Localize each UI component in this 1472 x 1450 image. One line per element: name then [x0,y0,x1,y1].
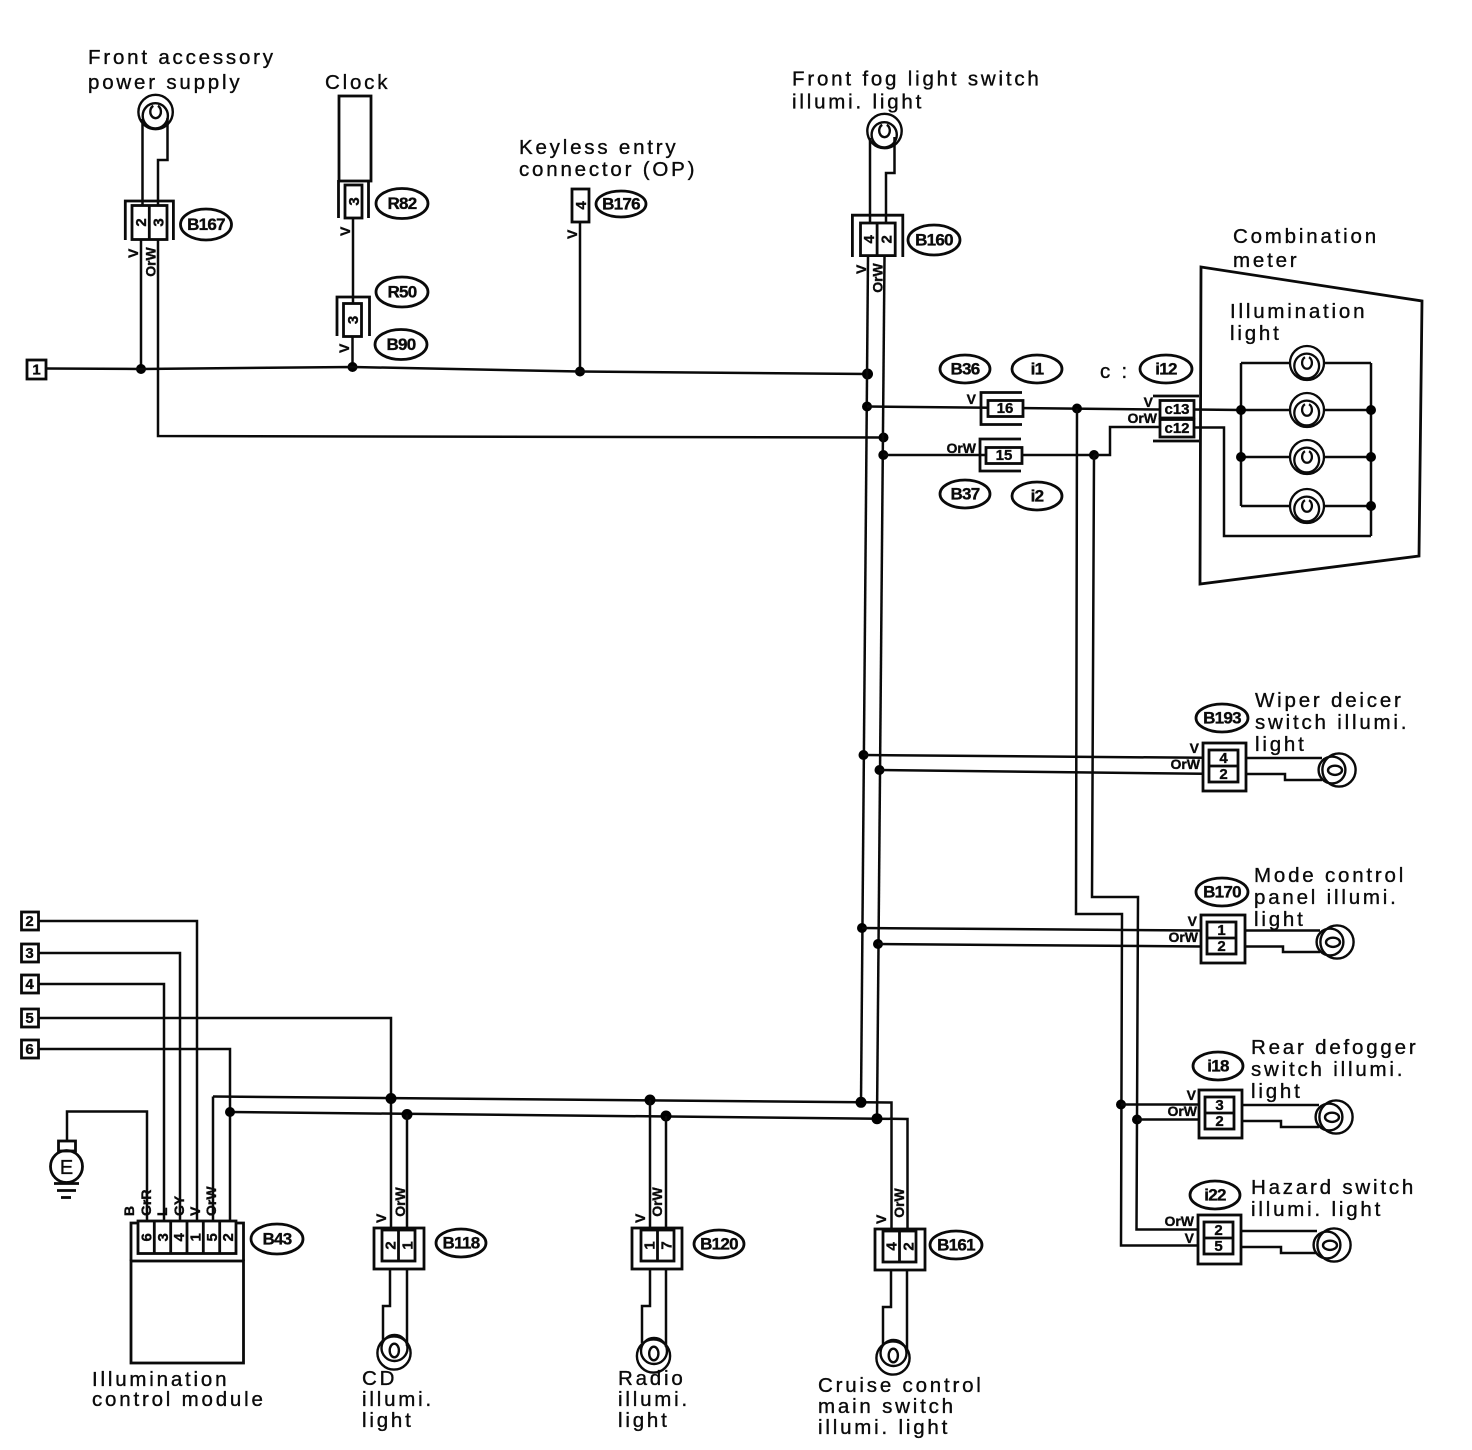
junction dot OrW trunk mode branch [873,939,883,949]
junction dot V trunk wiper branch [859,750,869,760]
oval B118 [436,1229,486,1257]
svg-text:Radio: Radio [618,1367,686,1390]
svg-text:GY: GY [171,1195,187,1216]
junction dot OrW trunk at B37 wire [878,450,888,460]
junction dot OrW bus at B43 pin 2 [225,1107,235,1117]
clock body [339,96,371,181]
oval B170 [1196,878,1248,906]
svg-text:B43: B43 [262,1230,291,1249]
svg-text:B36: B36 [950,360,979,379]
terminal 2 box [22,912,39,930]
svg-text:1: 1 [32,362,40,379]
svg-text:B118: B118 [443,1234,480,1253]
svg-text:illumi.: illumi. [362,1388,434,1411]
oval B161 [930,1231,982,1259]
wire i18 pin 3 to lamp [1242,1104,1319,1107]
junction dot V bus at B118 branch [386,1093,397,1104]
connector B170 pins [1207,922,1236,955]
svg-text:i1: i1 [1031,360,1044,379]
wire c13 into meter [1194,408,1241,411]
svg-text:3: 3 [346,197,363,205]
connector i22 pins [1204,1222,1233,1255]
svg-text:16: 16 [997,400,1014,417]
wire B118 pin 2 to lamp [383,1269,390,1342]
svg-text:7: 7 [658,1241,675,1249]
wire R82 to R50 [352,218,355,304]
oval B160 [908,225,960,255]
svg-text:B160: B160 [915,231,953,250]
svg-text:switch illumi.: switch illumi. [1251,1058,1405,1081]
svg-text:4: 4 [25,976,34,993]
svg-text:B193: B193 [1203,709,1241,728]
svg-text:1: 1 [399,1241,416,1249]
svg-text:V: V [125,248,141,258]
svg-text:light: light [1230,322,1282,345]
oval B43 [251,1224,303,1254]
svg-text:B170: B170 [1203,883,1241,902]
svg-text:1: 1 [1217,922,1225,939]
svg-text:V: V [1144,394,1154,410]
svg-text:i12: i12 [1155,360,1177,379]
svg-text:4: 4 [1219,750,1228,767]
wire i22 pin 2 to lamp [1241,1230,1317,1233]
svg-text:B176: B176 [602,195,640,214]
svg-text:OrW: OrW [649,1186,665,1216]
connector B90 pin 3 [344,304,362,337]
wire B167 pin 3 OrW down and right to vertical OrW trunk [158,240,884,438]
junction dot V bus at B120 branch [645,1095,656,1106]
svg-text:OrW: OrW [1167,1103,1197,1119]
svg-text:V: V [564,229,580,239]
connector B167 pins [132,206,167,240]
connector B160 outer [852,215,902,257]
terminal 1 box [27,360,46,379]
svg-text:B120: B120 [700,1235,738,1254]
label Front accessory power supply [88,46,276,94]
meter lamp 2 [1241,393,1371,427]
oval B37 [940,480,990,508]
oval i2 [1012,482,1062,510]
terminal c12 [1160,420,1194,438]
svg-text:OrW: OrW [142,246,158,276]
svg-text:R50: R50 [387,283,416,302]
svg-text:1: 1 [187,1233,204,1241]
wire V bus from terminal 1 to fog trunk [46,367,868,374]
wire terminal 3 to B43 pin 4 [38,953,181,1222]
oval B176 [596,191,646,217]
connector B118 pins [382,1230,416,1261]
svg-text:4: 4 [883,1242,900,1251]
wire i22 pin 5 to lamp [1241,1247,1317,1253]
junction dot [136,364,146,374]
svg-text:connector (OP): connector (OP) [519,158,697,181]
svg-text:c12: c12 [1164,420,1189,437]
junction dot OrW trunk wiper branch [875,765,885,775]
ground E circle [51,1151,83,1183]
wire V bus bottom [213,1097,892,1232]
connector R82 bracket [339,180,369,218]
label Mode control panel illumi. light [1254,864,1406,931]
junction dot OrW drop defogger branch [1132,1115,1142,1125]
svg-text:V: V [967,391,977,407]
svg-text:Front fog light switch: Front fog light switch [792,68,1042,91]
svg-text:Front accessory: Front accessory [88,46,276,69]
svg-text:OrW: OrW [1127,410,1157,426]
svg-text:light: light [618,1409,670,1432]
connector B118 outer [374,1228,424,1269]
connector B161 pins [883,1231,917,1262]
connector i22 outer [1198,1215,1241,1264]
wire V trunk from B160 pin 4 down to bottom V bus [861,257,868,1102]
oval B167 [181,209,232,240]
svg-text:Cruise control: Cruise control [818,1374,984,1397]
svg-text:c13: c13 [1164,401,1189,418]
connector B161 outer [875,1229,925,1270]
oval B90 [375,330,427,360]
svg-text:illumi. light: illumi. light [792,91,924,114]
svg-text:CD: CD [362,1367,397,1390]
svg-text:15: 15 [996,447,1013,464]
wire B43 pin 5 up to V bus [212,1097,215,1223]
lamp front accessory power supply [138,95,172,129]
terminal 3 box [22,944,39,962]
meter lamp 4 [1241,489,1371,523]
svg-text:B161: B161 [937,1236,975,1255]
connector B176 pin 4 [572,189,590,222]
junction dot OrW branch [1089,450,1099,460]
wire terminal 5 to B118 pin 2 [38,1018,392,1230]
wire OrW drop from B37 branch to hazard [1092,455,1198,1230]
wire OrW to rear defogger [1137,1118,1199,1121]
wire B170 pin 1 to lamp [1245,929,1320,932]
label CD illumi. light [362,1367,434,1432]
connector B43 pin row [138,1221,237,1254]
terminal 4 box [22,975,39,993]
junction dot V trunk mode branch [857,923,867,933]
meter left bus [1240,363,1243,506]
connector 16 terminal [988,400,1023,417]
svg-text:B167: B167 [187,215,225,234]
svg-text:V: V [632,1213,648,1223]
svg-text:3: 3 [25,945,33,962]
svg-text:V: V [1185,1230,1195,1246]
svg-text:GrR: GrR [138,1190,154,1216]
svg-text:2: 2 [220,1233,237,1241]
svg-text:OrW: OrW [392,1186,408,1216]
svg-text:2: 2 [133,218,150,226]
wire B118 pin 1 to lamp [406,1269,409,1346]
ground strokes [54,1184,79,1198]
wire terminal 4 to B43 pin 3 [38,984,165,1222]
svg-text:illumi.: illumi. [618,1388,690,1411]
lamp rear defogger switch [1316,1100,1353,1133]
label Illumination light [1230,300,1367,345]
wire OrW trunk from B160 pin 2 down to bottom OrW bus [877,257,885,1119]
connector B170 outer [1201,915,1245,963]
illumination control module body [131,1223,244,1363]
svg-text:5: 5 [1214,1238,1222,1255]
wire V to mode control [862,928,1201,931]
svg-text:OrW: OrW [1168,929,1198,945]
lamp mode control panel [1317,925,1354,958]
wire lamp lead left to B167 pin 2 [141,119,144,205]
label Wiper deicer switch illumi. light [1255,689,1409,756]
junction dot V branch [1072,404,1082,414]
label Hazard switch illumi. light [1251,1176,1416,1221]
connector B193 outer [1203,743,1246,791]
svg-text:power supply: power supply [88,71,242,94]
svg-text:i2: i2 [1031,487,1044,506]
svg-text:Rear defogger: Rear defogger [1251,1036,1418,1059]
svg-text:5: 5 [204,1233,221,1241]
meter lamp 1 [1241,346,1371,380]
svg-text:meter: meter [1233,249,1299,272]
wire OrW to connector 15 [883,454,1095,457]
svg-text:2: 2 [1215,1113,1223,1130]
svg-text:2: 2 [1219,766,1227,783]
svg-text:L: L [154,1207,170,1216]
junction dot at OrW trunk [879,433,889,443]
wire OrW bus to B120 pin 7 [665,1116,668,1230]
svg-text:4: 4 [171,1232,188,1241]
wire B167 pin 2 V down to bus [140,240,143,370]
label Combination meter [1233,225,1379,272]
svg-text:Mode control: Mode control [1254,864,1406,887]
svg-text:3: 3 [150,218,167,226]
wire V to rear defogger [1121,1103,1199,1106]
connector B193 pins [1209,750,1238,783]
oval R82 [376,189,428,219]
svg-text:OrW: OrW [946,440,976,456]
svg-text:light: light [1255,733,1307,756]
connector i18 pins [1205,1097,1234,1130]
svg-text:V: V [1188,913,1198,929]
svg-text:2: 2 [1217,938,1225,955]
svg-text:V: V [873,1214,889,1224]
wire B193 pin 4 to lamp [1246,757,1322,760]
wire B161 pin 2 to lamp [906,1270,909,1349]
junction dot OrW trunk end at OrW bus [872,1113,883,1124]
oval i18 [1193,1052,1243,1080]
svg-text:6: 6 [25,1041,33,1058]
connector B120 pins [641,1230,675,1261]
svg-text:light: light [1251,1080,1303,1103]
wire ground to B43 pin 6 [67,1112,147,1223]
junction dot V trunk end at V bus [856,1097,867,1108]
terminal 5 box [22,1009,39,1027]
wire terminal 6 to B43 pin 2 [38,1049,231,1222]
svg-text:2: 2 [382,1241,399,1249]
svg-text:Illumination: Illumination [1230,300,1367,323]
oval B120 [694,1230,744,1258]
svg-text:V: V [373,1213,389,1223]
svg-text:OrW: OrW [203,1186,219,1216]
svg-text:light: light [1254,908,1306,931]
svg-text:light: light [362,1409,414,1432]
connector B160 pins [861,223,896,256]
svg-text:4: 4 [861,234,878,243]
svg-text:c :: c : [1100,360,1130,383]
oval R50 [376,277,428,307]
lamp cruise control [876,1340,909,1375]
svg-text:illumi. light: illumi. light [1251,1198,1383,1221]
terminal c13 [1160,401,1194,419]
wire B170 pin 2 to lamp [1245,947,1320,953]
oval B193 [1196,704,1248,732]
lamp CD illumi [377,1335,410,1370]
label Illumination control module [92,1368,266,1411]
lamp front fog light switch [867,114,901,148]
wire fog lamp lead left [869,138,872,223]
wire B193 pin 2 to lamp [1246,774,1322,780]
connector B167 outer [125,201,173,240]
wire V to wiper deicer [864,755,1204,758]
label Radio illumi. light [618,1367,690,1432]
svg-text:Hazard switch: Hazard switch [1251,1176,1416,1199]
svg-text:3: 3 [1215,1097,1223,1114]
wire OrW bus to B118 pin 1 [406,1115,409,1231]
svg-text:B: B [121,1206,137,1216]
wire B120 pin 1 to lamp [642,1269,650,1343]
label Front fog light switch illumi. light [792,68,1042,114]
svg-text:Combination: Combination [1233,225,1379,248]
svg-text:V: V [187,1206,203,1216]
label Keyless entry connector (OP) [519,136,697,181]
svg-text:Clock: Clock [325,71,390,94]
label Rear defogger switch illumi. light [1251,1036,1418,1103]
junction dot [348,362,358,372]
svg-text:switch illumi.: switch illumi. [1255,711,1409,734]
oval i1 [1012,355,1062,383]
wire B176 down to bus [579,222,582,372]
connector R50/B90 bracket [337,297,370,336]
svg-text:2: 2 [25,913,33,930]
combination meter body [1200,267,1422,584]
svg-text:V: V [336,343,352,353]
svg-text:2: 2 [1214,1222,1222,1239]
junction dot V drop defogger branch [1116,1100,1126,1110]
svg-text:V: V [1190,740,1200,756]
ground terminal cap [59,1141,76,1151]
oval i12 [1140,355,1192,383]
svg-text:control module: control module [92,1388,266,1411]
wire terminal 2 to B43 pin 1 [38,921,198,1222]
wire i18 pin 2 to lamp [1242,1121,1319,1127]
wire OrW branch up to c12 [1094,427,1160,455]
svg-text:V: V [853,264,869,274]
label Cruise control main switch illumi. light [818,1374,984,1439]
oval i22 [1190,1181,1240,1209]
wire OrW to mode control [878,944,1201,947]
svg-text:i22: i22 [1204,1186,1226,1205]
svg-text:4: 4 [573,201,590,210]
svg-text:panel illumi.: panel illumi. [1254,886,1399,909]
connector R82 pin 3 [345,185,363,218]
svg-text:5: 5 [25,1010,33,1027]
meter lamp 3 [1241,440,1371,474]
svg-text:Wiper deicer: Wiper deicer [1255,689,1404,712]
connector B120 outer [632,1228,682,1269]
junction dot [575,367,585,377]
junction dots meter right bus [1366,405,1376,511]
connector i18 outer [1199,1090,1242,1138]
junction dot OrW bus at B118 branch [402,1109,413,1120]
lamp wiper deicer switch [1319,753,1356,786]
meter right bus [1370,363,1373,536]
svg-text:Keyless entry: Keyless entry [519,136,678,159]
wire V to combination meter c13 [867,407,1160,410]
wire fog lamp lead right [886,137,895,223]
wire lamp lead right to B167 pin 3 [158,118,168,205]
svg-text:i18: i18 [1207,1057,1229,1076]
connector 15 bracket [980,439,1021,471]
connector 15 terminal [986,447,1022,464]
svg-text:1: 1 [641,1241,658,1249]
junction dots meter left bus [1236,405,1246,462]
wire c12 into meter down and along bottom [1194,428,1371,537]
oval B36 [940,355,990,383]
svg-text:R82: R82 [387,194,416,213]
wire OrW to wiper deicer [880,770,1204,774]
terminal 6 box [22,1040,39,1058]
connector c13 c12 bracket [1153,396,1199,441]
svg-text:V: V [337,226,353,236]
junction dot V trunk at B36 wire [862,402,872,412]
svg-text:OrW: OrW [1164,1213,1194,1229]
lamp Radio illumi [637,1338,670,1373]
svg-text:3: 3 [345,316,362,324]
junction dot bus at fog V trunk [862,369,873,380]
svg-text:2: 2 [900,1242,917,1250]
junction dot OrW bus at B120 branch [661,1111,672,1122]
wire B161 pin 4 to lamp [883,1270,891,1344]
wire OrW bus bottom [230,1112,908,1231]
svg-text:E: E [60,1157,73,1179]
svg-text:illumi. light: illumi. light [818,1416,950,1439]
svg-text:main switch: main switch [818,1395,956,1418]
wire B120 pin 7 to lamp [665,1269,668,1347]
svg-text:OrW: OrW [891,1187,907,1217]
svg-text:B90: B90 [386,335,415,354]
svg-text:6: 6 [138,1233,155,1241]
svg-text:V: V [1187,1087,1197,1103]
wire V drop from B36 branch to hazard [1076,409,1198,1246]
wire B90 down to bus [351,337,354,368]
connector 16 bracket [981,393,1022,425]
wire V bus to B120 pin 1 [649,1100,652,1230]
svg-text:2: 2 [878,235,895,243]
lamp hazard switch [1314,1228,1351,1261]
svg-text:B37: B37 [950,485,979,504]
svg-text:OrW: OrW [1170,756,1200,772]
svg-text:3: 3 [155,1233,172,1241]
